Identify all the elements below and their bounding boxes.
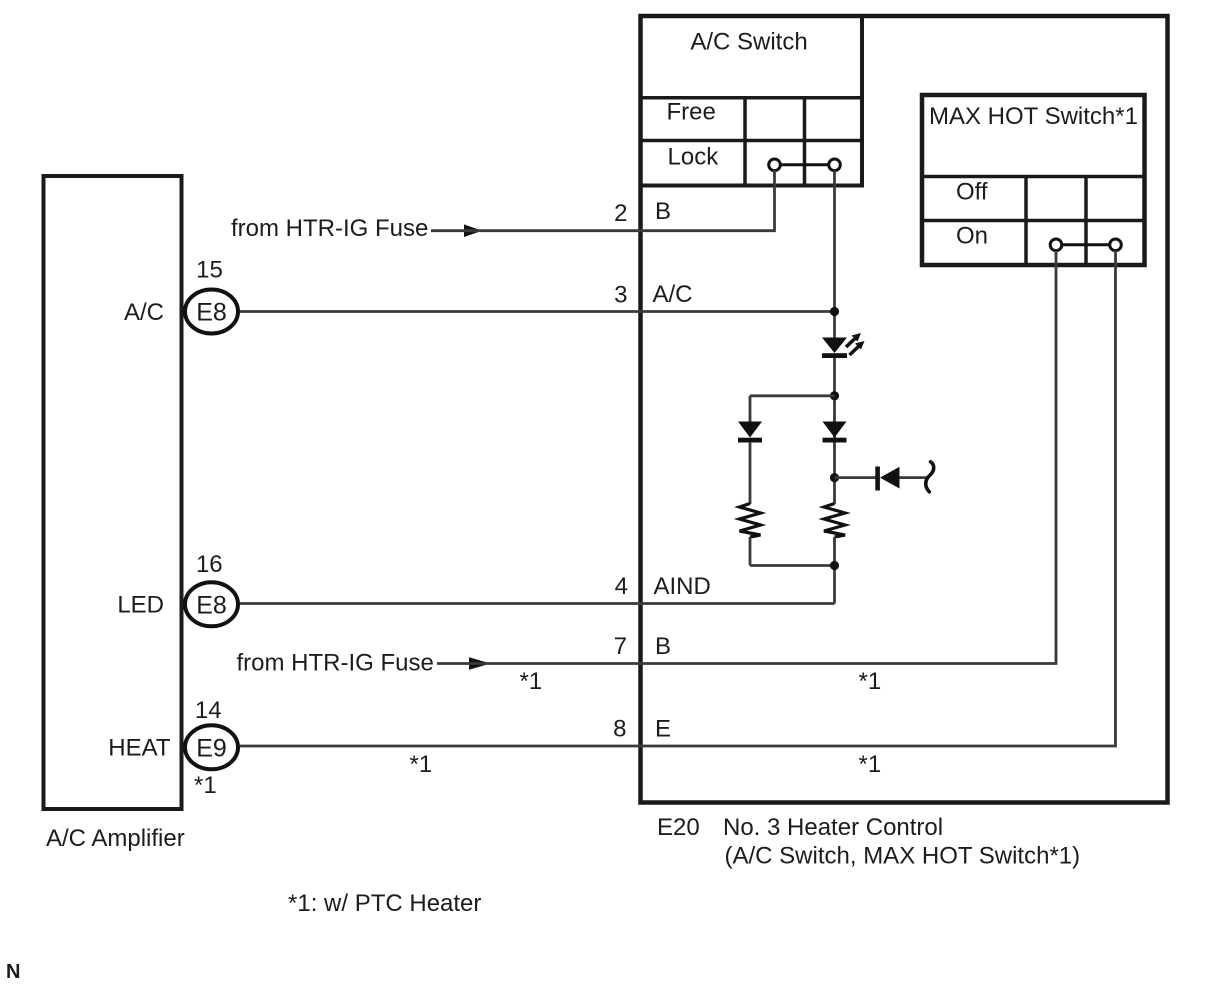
wire: branch right to D4: [835, 476, 877, 479]
resistor R2: [824, 504, 845, 538]
diode D3: [823, 422, 847, 443]
svg-text:No. 3 Heater Control: No. 3 Heater Control: [723, 814, 943, 841]
svg-text:LED: LED: [117, 592, 164, 619]
wire: fuse to pin7 B up to MAX HOT left contact: [437, 251, 1056, 664]
diode D2: [738, 422, 762, 443]
svg-text:E8: E8: [196, 299, 227, 327]
svg-text:E: E: [655, 716, 671, 743]
svg-text:8: 8: [613, 716, 626, 743]
svg-text:E8: E8: [196, 591, 227, 619]
svg-text:*1: *1: [520, 668, 543, 695]
svg-text:Free: Free: [667, 99, 716, 126]
svg-text:Off: Off: [956, 179, 988, 206]
wire: left branch down to diode D2: [749, 396, 752, 422]
wire: bottom connector: [750, 564, 835, 567]
A/C switch Lock contact: [769, 159, 841, 171]
A/C Switch box: [639, 16, 863, 186]
svg-text:7: 7: [614, 633, 627, 660]
MAX HOT Switch box: [920, 95, 1145, 265]
arrow to pin 2 wire: [464, 224, 482, 237]
wire: D2 to R1: [749, 442, 752, 504]
connector E8 (LED): [185, 582, 238, 626]
svg-text:16: 16: [196, 551, 223, 578]
svg-text:*1: *1: [859, 751, 882, 778]
svg-text:MAX HOT Switch*1: MAX HOT Switch*1: [929, 103, 1138, 130]
svg-text:AIND: AIND: [654, 573, 711, 600]
wire: R2 down to AIND wire: [833, 537, 836, 604]
svg-text:2: 2: [614, 200, 627, 227]
node: branch to D2: [830, 391, 839, 400]
svg-text:(A/C Switch, MAX HOT Switch*1): (A/C Switch, MAX HOT Switch*1): [725, 843, 1081, 870]
connector E9 (HEAT): [185, 725, 238, 769]
connector E8 (A/C): [185, 290, 238, 334]
svg-text:E20: E20: [657, 814, 700, 841]
wire: E9 to pin8 E up to MAX HOT right contact: [240, 251, 1116, 747]
MAX HOT On contact: [1050, 239, 1121, 251]
svg-text:E9: E9: [196, 734, 227, 762]
svg-text:A/C Amplifier: A/C Amplifier: [46, 825, 185, 852]
wire: LED cathode down to resistor R2: [833, 358, 836, 504]
wire: E8 LED to AIND: [240, 602, 835, 605]
svg-text:A/C: A/C: [653, 281, 693, 308]
wire: Lock right contact down to LED anode: [833, 170, 836, 338]
node: bottom connector junction: [830, 561, 839, 570]
svg-text:15: 15: [196, 256, 223, 283]
node: A/C wire junction: [830, 307, 839, 316]
svg-text:*1: *1: [859, 668, 882, 695]
svg-text:N: N: [6, 961, 20, 983]
resistor R1: [740, 504, 761, 538]
svg-text:from HTR-IG Fuse: from HTR-IG Fuse: [237, 650, 434, 677]
svg-text:On: On: [956, 223, 988, 250]
svg-text:B: B: [655, 633, 671, 660]
wire: branch left to D2: [750, 394, 835, 397]
svg-text:Lock: Lock: [668, 144, 720, 171]
wire: E8 to A/C switch vertical: [240, 310, 835, 313]
diode D4: [875, 467, 899, 491]
big box E20 No. 3 Heater Control: [641, 16, 1168, 803]
arrow to pin 7 wire: [469, 657, 491, 670]
svg-text:3: 3: [614, 282, 627, 309]
svg-text:from HTR-IG Fuse: from HTR-IG Fuse: [231, 215, 428, 242]
svg-text:*1: *1: [410, 751, 433, 778]
wire: D4 to break: [900, 476, 929, 479]
wire: R1 down to bottom connector: [749, 537, 752, 566]
svg-text:A/C Switch: A/C Switch: [690, 29, 807, 56]
wire break squiggle: [926, 462, 934, 492]
wire: fuse to pin2 B and up to Lock contact: [431, 170, 775, 230]
svg-text:B: B: [655, 198, 671, 225]
svg-text:*1: *1: [194, 772, 217, 799]
svg-text:14: 14: [195, 697, 222, 724]
svg-text:4: 4: [615, 573, 628, 600]
A/C Amplifier box: [44, 176, 182, 809]
svg-text:A/C: A/C: [124, 299, 164, 326]
LED D1: [822, 333, 865, 358]
node: branch to D4: [830, 473, 839, 482]
svg-text:*1: w/ PTC Heater: *1: w/ PTC Heater: [288, 890, 481, 917]
svg-text:HEAT: HEAT: [108, 735, 171, 762]
